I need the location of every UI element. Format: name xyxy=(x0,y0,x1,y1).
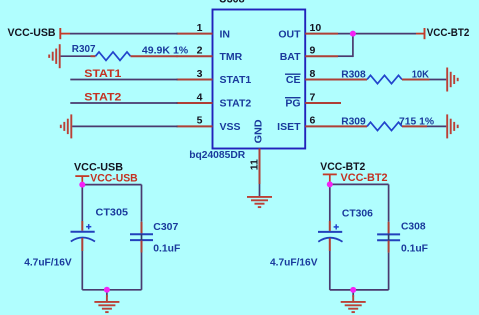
svg-text:5: 5 xyxy=(197,115,203,127)
pin 10 stub xyxy=(305,33,338,35)
svg-text:bq24085DR: bq24085DR xyxy=(189,149,245,161)
pin 7 stub xyxy=(305,102,341,104)
label CT305 xyxy=(96,207,129,219)
port VCC-BT2 (top right) xyxy=(416,27,469,39)
part number bq24085DR xyxy=(189,149,245,161)
U308 pin name CE xyxy=(285,74,301,86)
pin 2 stub xyxy=(177,55,213,57)
wire VCC-USB to pin 1 xyxy=(70,33,178,35)
wire STAT2 to pin 4 xyxy=(70,102,177,104)
svg-text:VCC-BT2: VCC-BT2 xyxy=(341,172,388,184)
value 0.1uF (C307) xyxy=(153,243,181,255)
U308 pin name STAT2 xyxy=(220,98,252,110)
svg-text:R308: R308 xyxy=(341,69,366,81)
value 715 1% xyxy=(399,115,435,127)
svg-text:VCC-USB: VCC-USB xyxy=(8,27,56,39)
U308 pin name GND (rotated) xyxy=(252,119,264,143)
U308 pin name OUT xyxy=(278,28,301,40)
IC U308 bq24085DR body xyxy=(213,10,306,149)
U308 pin name ISET xyxy=(277,121,301,133)
ground (rotated) at R307 xyxy=(49,44,60,68)
ground (earth) bottom right xyxy=(341,302,366,312)
capacitor CT306 xyxy=(318,221,343,251)
svg-text:VCC-USB: VCC-USB xyxy=(90,172,137,184)
svg-text:STAT2: STAT2 xyxy=(220,98,252,110)
wire R308 to ground xyxy=(430,79,447,81)
svg-text:7: 7 xyxy=(310,91,316,103)
value 0.1uF (C308) xyxy=(401,242,429,254)
svg-text:STAT2: STAT2 xyxy=(84,91,121,103)
svg-text:CT306: CT306 xyxy=(342,208,373,220)
port VCC-USB (top left) xyxy=(8,27,71,39)
capacitor C307 xyxy=(130,222,153,253)
net label STAT1 xyxy=(84,68,121,80)
svg-text:R309: R309 xyxy=(341,115,366,127)
svg-text:715 1%: 715 1% xyxy=(399,115,435,127)
label R308 xyxy=(341,69,366,81)
pin number 2 xyxy=(197,45,203,57)
pin 1 stub xyxy=(177,33,213,35)
power symbol VCC-USB xyxy=(74,161,123,184)
ground (rotated) at R309 xyxy=(447,114,458,138)
svg-text:CT305: CT305 xyxy=(96,207,129,219)
wire caps to ground rail xyxy=(82,251,141,302)
pin number 6 xyxy=(310,115,316,127)
pin 9 stub xyxy=(305,55,338,57)
pin number 4 xyxy=(197,91,203,103)
svg-text:4: 4 xyxy=(197,91,203,103)
junction node VCC-USB xyxy=(79,182,85,188)
pin 4 stub xyxy=(177,102,213,104)
pin number 5 xyxy=(197,115,203,127)
svg-text:49.9K 1%: 49.9K 1% xyxy=(142,44,189,56)
pin number 10 xyxy=(310,22,322,34)
svg-text:0.1uF: 0.1uF xyxy=(401,242,429,254)
value 49.9K 1% xyxy=(142,44,189,56)
net label STAT2 xyxy=(84,91,121,103)
svg-text:3: 3 xyxy=(197,68,203,80)
svg-text:ISET: ISET xyxy=(277,121,301,133)
value 10K xyxy=(412,69,430,81)
label C308 xyxy=(401,221,426,233)
power symbol VCC-BT2 xyxy=(320,161,365,182)
svg-text:9: 9 xyxy=(310,45,316,57)
label C307 xyxy=(153,221,178,233)
value 4.7uF/16V (CT306) xyxy=(270,256,318,268)
label R309 xyxy=(341,115,366,127)
capacitor CT305 xyxy=(71,221,96,251)
resistor R309 xyxy=(341,122,427,130)
U308 pin name IN xyxy=(220,28,231,40)
pin number 9 xyxy=(310,45,316,57)
pin number 11 (rotated) xyxy=(249,159,261,170)
value 4.7uF/16V (CT305) xyxy=(24,256,71,268)
label R307 xyxy=(72,43,96,55)
wire VCC-BT2 rail xyxy=(330,184,389,221)
ground (earth) bottom left xyxy=(94,302,119,312)
svg-text:VCC-BT2: VCC-BT2 xyxy=(427,27,470,39)
pin 3 stub xyxy=(177,79,213,81)
svg-text:IN: IN xyxy=(220,28,231,40)
svg-text:TMR: TMR xyxy=(220,51,243,63)
svg-text:STAT1: STAT1 xyxy=(220,74,252,86)
pin number 7 xyxy=(310,91,316,103)
wire VCC-USB rail xyxy=(82,185,141,222)
svg-text:STAT1: STAT1 xyxy=(84,68,121,80)
wire caps to ground rail (right) xyxy=(330,251,389,302)
resistor R308 xyxy=(341,75,430,83)
junction node OUT/BAT xyxy=(350,31,356,37)
svg-text:4.7uF/16V: 4.7uF/16V xyxy=(24,256,71,268)
refdes U308 (clipped at top) xyxy=(219,0,245,6)
pin 8 stub xyxy=(305,79,341,81)
resistor R307 xyxy=(91,52,178,60)
pin 5 stub xyxy=(177,125,213,127)
net label VCC-USB (red) xyxy=(90,172,137,184)
pin 6 stub xyxy=(305,125,341,127)
U308 pin name TMR xyxy=(220,51,243,63)
U308 pin name VSS xyxy=(220,121,241,133)
svg-text:8: 8 xyxy=(310,68,316,80)
svg-text:CE: CE xyxy=(286,74,301,86)
svg-text:6: 6 xyxy=(310,115,316,127)
U308 pin name PG xyxy=(285,98,301,110)
svg-text:U308: U308 xyxy=(219,0,245,6)
wire pin 11 to ground xyxy=(259,184,261,197)
svg-text:BAT: BAT xyxy=(280,51,301,63)
svg-text:GND: GND xyxy=(252,119,264,143)
junction node VCC-BT2 xyxy=(327,181,333,187)
wire R309 to ground xyxy=(427,125,446,127)
svg-text:VSS: VSS xyxy=(220,121,241,133)
pin number 1 xyxy=(197,22,203,34)
wire STAT1 to pin 3 xyxy=(70,79,177,81)
wire ground to R307 xyxy=(61,55,91,57)
svg-text:1: 1 xyxy=(197,22,203,34)
ground (rotated) at VSS xyxy=(61,114,72,138)
pin number 8 xyxy=(310,68,316,80)
svg-text:10K: 10K xyxy=(412,69,430,81)
svg-text:PG: PG xyxy=(285,98,300,110)
capacitor C308 xyxy=(377,222,400,253)
wire pin 9 up to OUT net xyxy=(338,34,353,57)
pin 11 stub xyxy=(259,149,261,185)
svg-text:R307: R307 xyxy=(72,43,96,55)
U308 pin name BAT xyxy=(280,51,301,63)
pin number 3 xyxy=(197,68,203,80)
junction node (left cap ground) xyxy=(104,287,110,293)
ground (rotated) at R308 xyxy=(447,68,458,92)
net label VCC-BT2 (red) xyxy=(341,172,388,184)
svg-text:OUT: OUT xyxy=(278,28,301,40)
svg-text:10: 10 xyxy=(310,22,322,34)
svg-text:2: 2 xyxy=(197,45,203,57)
ground (earth) below U308 xyxy=(247,197,272,207)
svg-text:0.1uF: 0.1uF xyxy=(153,243,181,255)
wire pin 10 to VCC-BT2 xyxy=(338,33,416,35)
wire ground to pin 5 xyxy=(72,125,177,127)
svg-text:C307: C307 xyxy=(153,221,178,233)
svg-text:C308: C308 xyxy=(401,221,426,233)
label CT306 xyxy=(342,208,373,220)
U308 pin name STAT1 xyxy=(220,74,252,86)
junction node (right cap ground) xyxy=(350,287,356,293)
svg-text:4.7uF/16V: 4.7uF/16V xyxy=(270,256,318,268)
